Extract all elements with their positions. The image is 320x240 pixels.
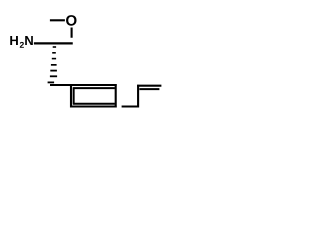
ring bottom edge (outer) <box>71 105 117 107</box>
ring right vertical <box>115 84 117 108</box>
ring inner top line <box>73 87 115 89</box>
bond O-CH2 (vertical) <box>71 28 73 38</box>
bond N-CH-CH2 (main horizontal) <box>34 42 73 44</box>
atom O (methoxy oxygen) <box>66 15 76 26</box>
C=C double bond lower line <box>139 88 159 90</box>
ring top edge (long) <box>50 84 117 86</box>
bond CH3-O (methyl line) <box>50 19 65 21</box>
chain bond ring-CH (bottom segment) <box>122 105 139 107</box>
atom label H2N <box>10 36 18 45</box>
ring left inner vertical <box>73 87 75 104</box>
C=C double bond upper line <box>137 85 161 87</box>
hashed wedge bond (stereo, 7 dashes) <box>48 46 58 83</box>
chain vertical bond <box>137 85 139 108</box>
ring left outer vertical <box>70 84 72 108</box>
ring inner bottom line <box>73 103 115 105</box>
